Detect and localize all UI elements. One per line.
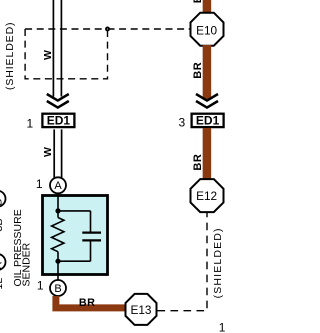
- svg-text:W: W: [42, 147, 54, 157]
- connector ED1 left: [42, 114, 74, 128]
- svg-text:B: B: [0, 199, 5, 206]
- arrow into ED1 left: [47, 94, 69, 108]
- svg-text:(SHIELDED): (SHIELDED): [212, 227, 224, 298]
- wire BR E10 to arrow: [203, 45, 212, 100]
- svg-text:E13: E13: [131, 303, 152, 317]
- svg-text:1: 1: [36, 177, 43, 191]
- svg-text:E12: E12: [196, 189, 217, 203]
- svg-text:(SHIELDED): (SHIELDED): [4, 22, 16, 91]
- svg-text:3: 3: [179, 115, 186, 129]
- capacitor stem bottom: [90, 241, 92, 262]
- junction dot top: [55, 208, 60, 213]
- partial terminal circle left-edge upper: [0, 191, 6, 207]
- junction dot shield node: [106, 28, 109, 31]
- resistor: [52, 218, 64, 252]
- svg-text:A: A: [54, 180, 62, 192]
- svg-text:ED1: ED1: [196, 114, 220, 128]
- svg-text:1: 1: [219, 321, 226, 333]
- capacitor C: [82, 233, 101, 241]
- junction dot bottom: [55, 259, 60, 264]
- svg-text:BR: BR: [192, 62, 204, 79]
- connector ED1 right: [192, 114, 224, 128]
- wire W pair to sender: [54, 129, 61, 177]
- wire BR top into E10: [203, 0, 212, 14]
- capacitor stem top: [90, 211, 92, 232]
- wire resistor to B: [57, 252, 59, 280]
- svg-text:BR: BR: [192, 154, 204, 171]
- svg-text:3B: 3B: [0, 219, 5, 232]
- shield dashed line to E10: [108, 28, 190, 30]
- svg-text:B: B: [54, 283, 61, 295]
- wire BR ED1 to E12: [203, 128, 212, 180]
- terminal B: [50, 280, 66, 296]
- sender internal wire from A: [57, 193, 59, 217]
- arrow into ED1 right: [196, 94, 218, 108]
- bottom rail wire: [58, 260, 91, 262]
- splice E10: [191, 13, 224, 46]
- wire W shielded pair (top segment): [53, 0, 61, 97]
- svg-text:W: W: [42, 50, 54, 60]
- terminal A: [50, 177, 66, 193]
- partial terminal circle left-edge lower: [0, 254, 6, 270]
- svg-text:1: 1: [37, 278, 44, 292]
- svg-text:BR: BR: [79, 297, 95, 309]
- svg-text:1: 1: [27, 116, 34, 130]
- splice E13: [126, 294, 157, 325]
- svg-text:E10: E10: [196, 24, 217, 38]
- svg-text:1L: 1L: [0, 278, 5, 290]
- svg-text:SENDER: SENDER: [21, 242, 33, 286]
- wire BR from B to E13: [56, 296, 127, 308]
- top rail wire: [58, 210, 91, 212]
- shield dashed box around W wire: [25, 29, 107, 79]
- svg-text:A: A: [0, 262, 5, 269]
- svg-text:ED1: ED1: [47, 114, 71, 128]
- shield dashed line E13 to E12: [158, 213, 208, 311]
- oil pressure sender box: [43, 196, 108, 275]
- splice E12: [191, 179, 224, 212]
- svg-text:BR: BR: [192, 0, 204, 3]
